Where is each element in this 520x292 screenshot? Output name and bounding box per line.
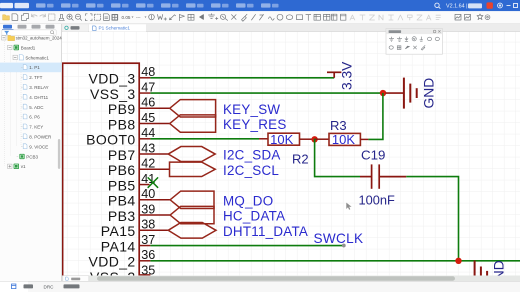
net flag DHT11_DATA [168, 223, 216, 239]
svg-text:PB3: PB3 [108, 208, 136, 224]
svg-text:PB5: PB5 [108, 177, 136, 193]
net flag I2C_SCL [170, 162, 216, 176]
svg-text:PB4: PB4 [108, 193, 136, 209]
wire VDD_2 across [150, 260, 520, 262]
svg-text:KEY_SW: KEY_SW [223, 102, 280, 117]
svg-text:5. ADC: 5. ADC [29, 105, 44, 110]
svg-text:10K: 10K [332, 132, 355, 147]
svg-text:1. P1: 1. P1 [29, 65, 40, 70]
svg-text:v1: v1 [21, 164, 26, 169]
svg-text:7. KEY: 7. KEY [29, 125, 43, 130]
chip U? body outline [63, 63, 140, 292]
wire BOOT0 to R2 [150, 138, 259, 140]
net flag HC_DATA [170, 206, 214, 223]
svg-text:BOOT0: BOOT0 [86, 132, 135, 148]
menu items (blobs) [36, 3, 279, 7]
search row [2, 30, 56, 36]
svg-text:P1 Schematic1: P1 Schematic1 [99, 26, 131, 31]
svg-text:8. POWER: 8. POWER [29, 135, 52, 140]
tree connector lines [5, 41, 21, 166]
row: project folder [2, 36, 83, 41]
svg-text:45: 45 [141, 111, 155, 125]
numbered sheet rows [8, 65, 52, 170]
svg-text:R3: R3 [330, 118, 347, 133]
document tab bar [62, 24, 520, 32]
svg-text:R2: R2 [292, 152, 309, 167]
svg-text:I2C_SCL: I2C_SCL [223, 163, 279, 178]
svg-text:44: 44 [141, 126, 155, 140]
svg-text:stm32_autohaem_2024-05-08_19: stm32_autohaem_2024-05-08_19 [16, 36, 62, 41]
net flag KEY_RES [170, 115, 216, 132]
resistor R2 [259, 132, 315, 147]
resistor R3 [315, 132, 369, 147]
wire R2/R3 node down to C19 [315, 139, 360, 177]
ground GND (right-pointing) [386, 78, 417, 109]
capacitor C19 [360, 164, 406, 188]
svg-text:43: 43 [141, 141, 155, 155]
mouse cursor [346, 203, 351, 210]
net flag MQ_DO [170, 191, 214, 208]
svg-text:V2.1.64 |: V2.1.64 | [446, 3, 467, 9]
svg-text:40: 40 [141, 187, 155, 201]
logo 嘉立创EDA (blob) [0, 3, 13, 8]
svg-text:48: 48 [141, 65, 155, 79]
svg-text:GND: GND [421, 78, 436, 109]
selected row highlight (1. P1) [0, 63, 61, 73]
right side of title bar [435, 3, 441, 9]
junction dot at VSS_3/GND node [380, 90, 386, 96]
svg-text:10K: 10K [270, 132, 293, 147]
toolbar background [0, 11, 520, 24]
ground GND2 (bottom, clipped) [475, 261, 488, 292]
svg-text:2. TFT: 2. TFT [29, 75, 42, 80]
svg-text:PB8: PB8 [108, 116, 136, 132]
collapsed bottom-panel tab [63, 276, 89, 282]
svg-text:KEY_RES: KEY_RES [223, 117, 287, 132]
svg-text:9. VIOCE: 9. VIOCE [29, 144, 48, 149]
svg-text:MQ_DO: MQ_DO [223, 193, 273, 208]
svg-text:PCB3: PCB3 [26, 154, 38, 159]
toolbar icons [3, 14, 490, 22]
svg-text:VDD_2: VDD_2 [88, 254, 135, 270]
svg-text:PB7: PB7 [108, 147, 136, 163]
svg-text:42: 42 [141, 157, 155, 171]
svg-text:DRC: DRC [44, 284, 55, 289]
svg-text:47: 47 [141, 80, 155, 94]
svg-text:PA14: PA14 [101, 238, 136, 254]
svg-text:DHT11_DATA: DHT11_DATA [223, 224, 308, 239]
pin stubs (dark red pin leads) [139, 78, 170, 275]
svg-text:SWCLK: SWCLK [314, 231, 364, 246]
svg-text:37: 37 [141, 233, 155, 247]
svg-text:100nF: 100nF [359, 192, 395, 207]
svg-text:4. DHT11: 4. DHT11 [29, 95, 48, 100]
svg-text:PB6: PB6 [108, 162, 136, 178]
svg-text:46: 46 [141, 96, 155, 110]
svg-text:HC_DATA: HC_DATA [223, 209, 285, 224]
wire VSS_3 to GND [150, 92, 383, 94]
svg-text:6. P6: 6. P6 [29, 115, 40, 120]
svg-text:Board1: Board1 [21, 45, 36, 50]
svg-text:I2C_SDA: I2C_SDA [223, 148, 281, 163]
svg-text:0.05: 0.05 [122, 15, 131, 20]
svg-text:VSS_3: VSS_3 [90, 86, 136, 102]
dangling wire end dot [342, 244, 346, 248]
svg-text:Schematic1: Schematic1 [25, 55, 49, 60]
panel scrollbar thumb [58, 139, 60, 169]
svg-text:3.3V: 3.3V [339, 61, 354, 90]
wire C19 to VDD_2 node [406, 177, 458, 261]
svg-text:36: 36 [141, 248, 155, 262]
power flag 3.3V [327, 72, 341, 78]
net flag KEY_SW [170, 100, 216, 117]
wire PA14 SWCLK stub [150, 245, 343, 247]
panel tabs (CJK blobs) [3, 25, 12, 29]
row: Schematic1 [13, 55, 49, 61]
no-connect X on PB5 [148, 177, 158, 187]
wire R3 to VSS node [368, 93, 383, 139]
menu bar background [0, 0, 520, 11]
junction dot between R2 and R3 [311, 136, 317, 142]
svg-text:VDD_3: VDD_3 [88, 71, 135, 87]
junction dot on VDD_2 [455, 258, 461, 264]
canvas background [62, 32, 520, 283]
svg-text:38: 38 [141, 218, 155, 232]
net flag I2C_SDA [168, 147, 215, 162]
svg-text:C19: C19 [361, 148, 385, 163]
pin numbers 48-35 [141, 65, 155, 277]
svg-text:39: 39 [141, 202, 155, 216]
svg-text:---: --- [136, 15, 141, 20]
svg-text:PB9: PB9 [108, 101, 136, 117]
svg-text:3. RELAY: 3. RELAY [29, 85, 48, 90]
svg-text:PA15: PA15 [101, 223, 136, 239]
bottom scroll band [62, 276, 520, 282]
floating tools panel [386, 29, 442, 55]
row: Board1 [8, 45, 36, 51]
wire VDD_3 to 3.3V [150, 77, 334, 79]
